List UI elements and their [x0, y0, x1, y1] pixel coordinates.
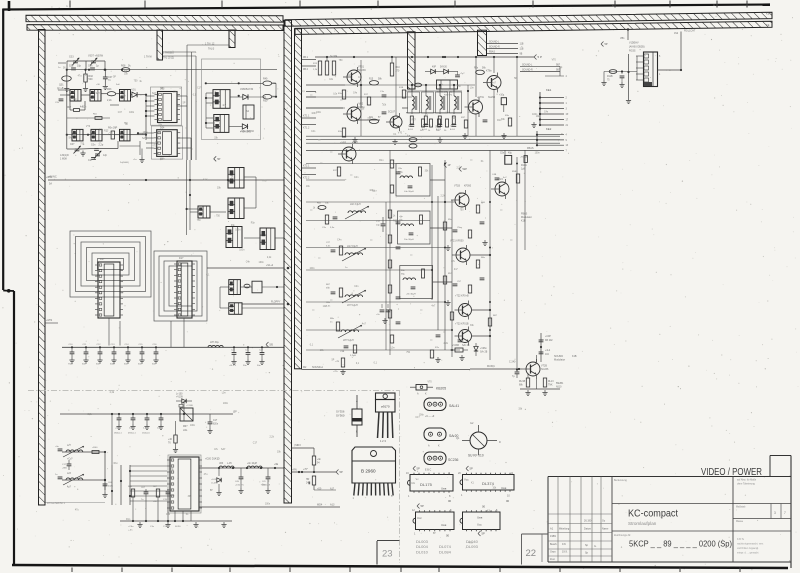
capacitor C20 with ground: [229, 346, 237, 367]
label FBAS modulator: [521, 213, 532, 223]
svg-text:L-05: L-05: [227, 463, 232, 465]
svg-text:2,2p: 2,2p: [99, 144, 104, 147]
svg-text:R2?: R2?: [347, 75, 352, 77]
svg-text:750n: 750n: [68, 364, 74, 366]
connector DB socket: [636, 52, 661, 87]
component chain C0P KB202: [539, 333, 554, 362]
svg-text:R11B: R11B: [607, 76, 613, 78]
svg-text:C0?: C0?: [70, 143, 75, 146]
capacitor C04 402n: [102, 482, 113, 498]
IC package DL374 pinout: [458, 466, 514, 503]
connector label VIDEHV: [629, 42, 645, 53]
channel 3 variable inductor: [342, 290, 366, 307]
title block bottom-right legal text: [737, 538, 764, 555]
wires mid IC column: [186, 160, 284, 238]
svg-text:KB205: KB205: [436, 387, 446, 391]
diode V066 SAr28: [450, 344, 470, 352]
page number 22: [526, 548, 537, 559]
wire oval junction x276: [272, 83, 277, 97]
IC D08 pair: [260, 228, 275, 250]
svg-text:C4n: C4n: [353, 93, 358, 95]
page number box 22: [522, 534, 549, 565]
wire trimmer branch top: [67, 61, 105, 70]
svg-text:SAY: SAY: [203, 179, 208, 182]
transistor VT02 SC239: [343, 103, 365, 125]
svg-text:100n: 100n: [239, 250, 245, 252]
IC V2805AY30 upper: [213, 88, 254, 108]
svg-text:00: 00: [482, 505, 486, 509]
svg-text:40µ: 40µ: [508, 153, 513, 155]
svg-text:100n: 100n: [190, 425, 196, 427]
svg-text:NL296: NL296: [488, 96, 496, 99]
svg-text:C1?: C1?: [253, 442, 258, 444]
wiring envelope around DIP D03: [151, 87, 182, 125]
wire bottom left y=503: [46, 502, 106, 504]
transistor VT1B KF050: [451, 185, 472, 211]
title block outer frame: [548, 456, 791, 569]
wire loop R07 under D01a: [70, 101, 85, 110]
svg-text:KT1.2: KT1.2: [303, 127, 310, 130]
bottom border grid tick marks: [72, 568, 740, 573]
svg-text:1N2: 1N2: [674, 33, 679, 35]
svg-text:Zust.: Zust.: [550, 558, 556, 561]
capacitor C 0 1000: [262, 468, 271, 494]
svg-text:100n: 100n: [535, 152, 541, 154]
svg-text:+R40: +R40: [92, 447, 98, 449]
svg-text:FBAS: FBAS: [527, 147, 534, 150]
wire modulator out right: [537, 355, 542, 362]
svg-text:Gepr.: Gepr.: [550, 551, 556, 554]
svg-text:100n: 100n: [129, 112, 135, 114]
svg-text:100n: 100n: [157, 428, 163, 430]
svg-text:Maßstab: Maßstab: [736, 506, 746, 509]
svg-text:3: 3: [774, 511, 776, 515]
svg-text:3x 33k: 3x 33k: [330, 55, 338, 58]
svg-text:+R4BA: +R4BA: [520, 156, 528, 159]
resistor R14A: [521, 156, 527, 171]
svg-text:+1L2: +1L2: [545, 350, 551, 352]
connector pin list KE2: [536, 127, 569, 152]
svg-text:(AV-BU DB2B): (AV-BU DB2B): [629, 46, 645, 49]
svg-text:Zeichnungs-Nr.: Zeichnungs-Nr.: [614, 534, 631, 537]
wire DIP D10 bottom to rail: [109, 318, 120, 346]
capacitor C H +150: [235, 468, 244, 494]
svg-text:auf Abw. für Maße: auf Abw. für Maße: [737, 479, 757, 482]
svg-text:und Dritten zugaengl.: und Dritten zugaengl.: [737, 547, 759, 550]
wiring envelope V2805 block: [202, 59, 261, 140]
svg-text:C4B: C4B: [492, 174, 497, 176]
svg-text:L02 3,3µH: L02 3,3µH: [350, 204, 361, 206]
channel 4 components: [330, 318, 357, 357]
connector left wire chain: [626, 54, 637, 104]
wire junction y=472: [292, 465, 337, 473]
wire y=83.3 to oval: [205, 82, 263, 84]
wire MD3 from bus bar: [292, 444, 315, 456]
component SAY30 SAL41 box: [437, 80, 458, 97]
hatched bus bar top-left outer: [26, 15, 283, 22]
svg-text:5P: 5P: [433, 533, 436, 535]
diode V05: [230, 94, 266, 99]
resistor R03 oval: [101, 88, 120, 102]
svg-text:KE: KE: [766, 23, 770, 27]
wire filter bottom y=480: [62, 479, 106, 481]
svg-text:(p=+B: (p=+B: [57, 87, 64, 90]
diode pair V01: [130, 89, 147, 98]
wire RN label: [292, 470, 297, 472]
svg-text:C1?: C1?: [213, 420, 218, 422]
svg-text:19.9.: 19.9.: [562, 551, 568, 554]
svg-text:7: 7: [784, 511, 786, 515]
svg-text:Uʙʙ: Uʙʙ: [501, 486, 507, 490]
svg-text:R1n: R1n: [114, 463, 119, 465]
resistor R04 below: [153, 486, 160, 521]
svg-text:+0n 10µH: +0n 10µH: [247, 463, 257, 465]
IC D03 DIP: [155, 88, 181, 123]
svg-text:+V01: +V01: [130, 89, 136, 92]
component V108 small: [179, 405, 193, 408]
flag SP at D2960: [336, 470, 343, 475]
title block inner dividers: [612, 477, 791, 563]
svg-text:DL084: DL084: [439, 549, 452, 554]
svg-text:26.190: 26.190: [584, 520, 592, 523]
transistor VT04: [386, 111, 402, 132]
svg-text:+V0n SiK3: +V0n SiK3: [240, 132, 252, 134]
driver bias column: [386, 150, 400, 355]
svg-text:entspr. d. ... gemacht: entspr. d. ... gemacht: [737, 552, 759, 555]
svg-text:5AY30: 5AY30: [440, 66, 447, 69]
svg-text:B 2960: B 2960: [361, 469, 376, 474]
resistor group 3x33k: [313, 55, 338, 75]
svg-text:HR: HR: [306, 479, 310, 481]
IC A2 box: [243, 105, 254, 119]
channel bias labels: [435, 202, 498, 349]
svg-text:SC236: SC236: [448, 458, 458, 462]
svg-text:00: 00: [506, 499, 510, 503]
svg-text:5P: 5P: [417, 467, 420, 471]
mid rail y=414: [60, 411, 237, 416]
svg-text:C4n: C4n: [358, 77, 363, 79]
caps C2n0 bottom: [376, 304, 390, 324]
svg-text:100n: 100n: [532, 114, 538, 116]
wire modulator input: [470, 365, 522, 370]
svg-text:C0n: C0n: [88, 65, 93, 68]
IC gate D02a: [67, 129, 83, 141]
svg-text:| MD3: | MD3: [294, 444, 301, 447]
capacitor row rail y=347: [62, 346, 284, 348]
transistor VT26 SC236: [522, 359, 549, 379]
svg-text:00: 00: [448, 499, 452, 503]
resistor R15 oval: [369, 79, 383, 86]
wire row2 to bus: [130, 134, 146, 136]
svg-text:620n: 620n: [213, 424, 219, 426]
svg-text:V307 +N30W: V307 +N30W: [88, 55, 104, 58]
svg-text:39P: 39P: [113, 127, 118, 130]
delay line wiring loops (left): [70, 231, 151, 297]
wire D03 outputs right: [177, 96, 187, 160]
wire rail drops: [327, 57, 494, 97]
svg-text:+VT0n: +VT0n: [477, 96, 485, 99]
svg-text:SC236: SC236: [541, 368, 549, 371]
IC B2960 SIL package: [352, 447, 396, 500]
svg-text:KT1.1: KT1.1: [303, 115, 310, 118]
svg-text:23: 23: [382, 549, 393, 560]
svg-text:1800-L1: 1800-L1: [114, 433, 122, 435]
title block revision table text: [550, 520, 609, 562]
svg-text:VIDEO / POWER: VIDEO / POWER: [701, 467, 762, 478]
svg-text:Uᴄᴄ: Uᴄᴄ: [417, 516, 422, 520]
svg-text:ø9170: ø9170: [381, 405, 390, 409]
transistor VT01 SC239: [343, 66, 366, 88]
capacitor C11 with ground: [82, 344, 89, 366]
long wire +SYNC y=180: [48, 175, 284, 186]
IC gate D02b: [84, 129, 103, 141]
svg-text:C0n: C0n: [91, 144, 96, 147]
IC gate D01c: [120, 90, 131, 102]
transistor VT21 KF050: [450, 240, 470, 266]
bus wires into D03/D04: [145, 95, 155, 140]
svg-text:+T22 KF0+B: +T22 KF0+B: [455, 295, 469, 298]
svg-text:RU1B: RU1B: [519, 381, 526, 383]
capacitor C12 with ground: [96, 344, 103, 366]
svg-text:Masse: Masse: [736, 520, 744, 523]
svg-text:TNK: TNK: [548, 385, 553, 387]
capacitor lower rail 0: [114, 414, 122, 435]
extra amp wiring: [306, 56, 469, 120]
svg-text:+7B: +7B: [335, 361, 339, 363]
capacitor lower rail 1: [128, 414, 136, 435]
svg-text:100n: 100n: [129, 428, 135, 430]
channel 3 components: [326, 284, 343, 307]
resistor R05 below: [128, 486, 135, 521]
capacitor C240: [509, 361, 519, 379]
wiring envelope around DIP D04: [151, 126, 182, 159]
capacitor C05 10p: [69, 65, 82, 70]
svg-text:Uᴄᴄ: Uᴄᴄ: [477, 523, 482, 527]
svg-text:5,2µH: 5,2µH: [350, 355, 356, 357]
capacitor C21 with ground: [243, 346, 251, 367]
svg-text:+0/H0: +0/H0: [46, 177, 53, 179]
title block revision table grid: [548, 477, 612, 563]
IC V2805 lower: [214, 115, 255, 134]
wire D04 inputs: [137, 132, 154, 148]
resistor R50 oval: [263, 94, 277, 102]
right section vertical wires: [432, 150, 525, 369]
wire into D01a: [66, 86, 68, 95]
label SM2B1: [556, 383, 564, 389]
svg-text:+0/H2: +0/H2: [46, 320, 53, 322]
wire bus FBAS y=150: [306, 147, 564, 150]
inductor L8 30uH: [208, 341, 223, 347]
svg-text:+C0n: +C0n: [128, 526, 134, 528]
bus bar end labels KE: [766, 12, 770, 28]
svg-text:K: K: [356, 430, 358, 434]
svg-text:VT0: VT0: [86, 126, 91, 128]
wire filter junction x105: [104, 452, 106, 490]
svg-text:+V06n: +V06n: [480, 348, 487, 350]
page number box 23: [377, 541, 400, 565]
svg-text:+9 — +9: +9 — +9: [425, 415, 435, 418]
channel 2 components: [326, 242, 348, 269]
svg-text:C1?: C1?: [118, 112, 123, 114]
svg-text:VT0: VT0: [428, 382, 433, 384]
wire +S1+2 y=268: [207, 264, 289, 269]
svg-text:C4n: C4n: [337, 240, 342, 242]
svg-text:KB 202: KB 202: [545, 340, 553, 342]
svg-text:C4n: C4n: [354, 286, 359, 288]
svg-text:52P: 52P: [463, 168, 468, 171]
svg-text:1 M08: 1 M08: [60, 158, 67, 161]
svg-text:MU301: MU301: [487, 365, 495, 368]
svg-text:R1n: R1n: [459, 193, 464, 195]
left bar wire stub H2: [45, 320, 58, 323]
connector R11B parts: [601, 70, 637, 88]
svg-text:C1?: C1?: [109, 133, 114, 135]
resistor R10 270: [390, 63, 400, 76]
wire FLOPPY y=304: [242, 301, 289, 306]
osc cluster extra marks: [55, 63, 140, 164]
title block field label Zeichnungs-Nr: [614, 534, 631, 537]
wire vertical x201: [200, 59, 202, 140]
svg-text:+L63: +L63: [211, 479, 217, 481]
svg-text:FLOPPY: FLOPPY: [271, 301, 281, 304]
device list DL040: [466, 539, 479, 549]
wire D04 outputs right: [177, 138, 191, 160]
IC package DIP3 pinout: [412, 504, 454, 538]
capacitor C15 with ground: [138, 344, 145, 366]
svg-text:KC-compact: KC-compact: [628, 509, 678, 520]
svg-text:C03: C03: [69, 56, 74, 59]
svg-text:SOUND-R: SOUND-R: [489, 47, 500, 49]
left bar label HSYNC: [46, 177, 53, 179]
svg-text:+T23 KF01B: +T23 KF01B: [455, 323, 469, 326]
svg-text:E-0.5: E-0.5: [450, 129, 456, 131]
hatched bus bar left vertical: [39, 30, 46, 506]
svg-text:KE1: KE1: [546, 88, 552, 92]
wire modulator emitter: [520, 379, 560, 396]
hatched bus bar right-top outer: [285, 12, 772, 26]
svg-text:100n: 100n: [316, 112, 322, 114]
svg-text:D04: D04: [160, 127, 165, 130]
svg-text:L8? 5,2µH: L8? 5,2µH: [343, 340, 354, 342]
hatched bus bar middle vertical outer: [284, 20, 292, 503]
svg-text:5P: 5P: [217, 157, 220, 161]
svg-text:C4n: C4n: [246, 262, 251, 264]
svg-text:A: A: [356, 399, 358, 403]
svg-text:5P: 5P: [210, 490, 213, 492]
svg-text:C4n: C4n: [166, 514, 171, 516]
ground under crystal: [64, 84, 108, 92]
emitter resistor row: [420, 119, 449, 132]
sheet bottom border line: [12, 565, 788, 568]
svg-text:+88n: +88n: [62, 468, 68, 470]
flag SP connector: [601, 42, 629, 47]
svg-text:D: D: [499, 441, 501, 444]
sheet left border jog: [3, 289, 14, 293]
hatched bus bar right-top inner: [295, 21, 772, 34]
svg-text:E-0.5: E-0.5: [408, 129, 414, 131]
IF tuned circuit 4: [450, 92, 459, 131]
svg-text:1 TA NI: 1 TA NI: [144, 56, 152, 59]
svg-text:+V10B: +V10B: [186, 405, 193, 407]
label RT GL SRF50: [47, 502, 65, 505]
wire 5P flag mid: [214, 156, 228, 161]
svg-text:SU KF 010: SU KF 010: [468, 454, 484, 458]
transistor VT23 KF050: [455, 323, 472, 346]
svg-text:SOUND-A: SOUND-A: [312, 366, 323, 369]
svg-text:DL093: DL093: [466, 544, 479, 549]
right section horizontal wires: [306, 164, 460, 351]
resistor R07: [67, 107, 85, 112]
capacitor C2 small: [88, 158, 96, 163]
svg-text:9.8.: 9.8.: [562, 543, 566, 546]
svg-text:5P: 5P: [514, 78, 517, 80]
svg-text:402n: 402n: [108, 486, 114, 488]
svg-text:SC239: SC239: [358, 69, 366, 72]
channel 2 variable inductor: [342, 246, 366, 261]
svg-text:SAY: SAY: [142, 137, 147, 140]
svg-text:1500-L6: 1500-L6: [142, 433, 150, 435]
svg-text:10p: 10p: [77, 65, 82, 68]
diode V06n vertical: [474, 343, 488, 356]
svg-text:Benennung: Benennung: [614, 479, 627, 482]
svg-text:+78+: +78+: [333, 371, 339, 373]
resistor R40 filter: [92, 447, 99, 454]
svg-text:R1n: R1n: [379, 160, 384, 162]
svg-text:4900-L1: 4900-L1: [128, 433, 136, 435]
inductor L23 variable: [63, 473, 84, 489]
IF tuned circuit 1: [408, 92, 417, 131]
wire filter top y=452: [62, 451, 106, 453]
sound signal bundle 1: [487, 42, 524, 56]
svg-text:V2805AY30: V2805AY30: [240, 88, 254, 91]
diode V109: [176, 394, 192, 404]
svg-text:Modulator: Modulator: [554, 359, 565, 362]
svg-text:R5B1: R5B1: [512, 171, 518, 173]
svg-text:A13: A13: [330, 504, 335, 507]
svg-text:5P: 5P: [421, 504, 424, 508]
component R0n 39P: [102, 127, 120, 140]
svg-text:SAr 2B: SAr 2B: [480, 350, 488, 353]
rail arrow 5/5: [266, 342, 273, 347]
IC D06 pair: [228, 198, 244, 219]
top rail S P y=57: [315, 55, 542, 60]
IC D04 DIP: [154, 127, 181, 157]
section divider dash-dot vertical: [399, 390, 401, 563]
svg-text:5P: 5P: [113, 76, 116, 78]
connector output wire: [658, 30, 696, 72]
trimmer capacitor below row2: [67, 135, 81, 154]
svg-text:VT0: VT0: [156, 133, 161, 135]
svg-text:VT1B: VT1B: [454, 185, 460, 188]
diode package SAr20: [424, 428, 459, 448]
resistor MR 94: [312, 456, 321, 465]
svg-text:5 P: 5 P: [538, 55, 543, 59]
diode V06: [229, 124, 252, 134]
wire stub A out: [163, 52, 197, 160]
svg-text:+10µ: +10µ: [115, 428, 121, 430]
svg-text:1 2 3: 1 2 3: [380, 439, 386, 443]
svg-text:+V109: +V109: [176, 397, 183, 399]
svg-text:L+100: L+100: [176, 394, 183, 396]
capacitor C08 2,2p: [79, 144, 103, 151]
stub A labels: [144, 52, 174, 60]
channel 1 components: [317, 203, 337, 230]
svg-text:VT0: VT0: [398, 133, 403, 135]
svg-text:100n: 100n: [468, 112, 474, 114]
wire D147D out right y=507: [199, 504, 340, 508]
wire MD4 label2: [314, 488, 336, 491]
svg-text:C4n: C4n: [99, 129, 104, 131]
